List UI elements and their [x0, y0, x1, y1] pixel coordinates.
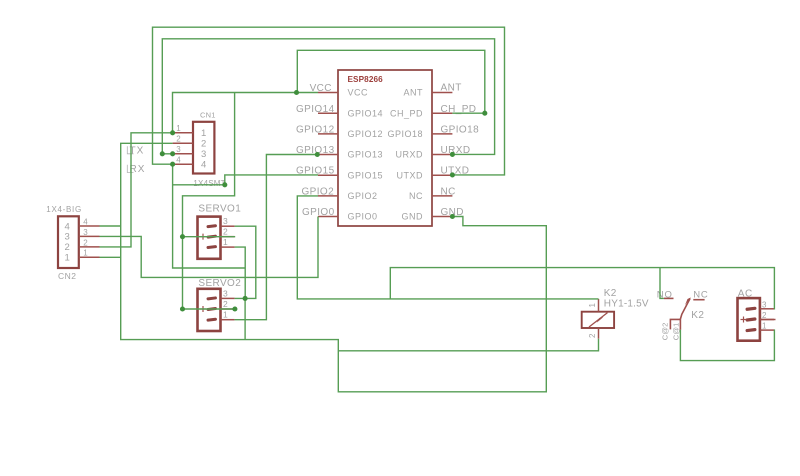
svg-text:K2: K2 [691, 310, 704, 321]
svg-text:NC: NC [409, 191, 423, 201]
junction at SERVO1 pin 2 wire [180, 234, 185, 239]
switch K2 (relay contacts NO/NC/common) [657, 289, 709, 340]
junction at CN1 pin 3 [170, 151, 175, 156]
svg-text:C@1: C@1 [671, 322, 680, 340]
wire GND branch to relay K2 pin 2 [338, 339, 598, 351]
connector CN2 (1X4-BIG, pins 4-1) [46, 205, 99, 281]
junction at SERVO2 pin 3 [243, 296, 248, 301]
wire branch to AC pin 3 [390, 268, 774, 309]
junction below 1X4SMT label [222, 182, 227, 187]
wire VCC: ESP VCC pin to CN1 pin 1 [173, 93, 319, 133]
wire CN1 pin 4 rail to SERVO1 pin 1 [173, 164, 246, 268]
svg-text:NC: NC [693, 289, 708, 300]
junction at ESP VCC pin [294, 90, 299, 95]
node RX (net flag) [127, 164, 145, 175]
junction at SERVO2 pin 2 pin end [232, 306, 237, 311]
svg-text:1X4SMT: 1X4SMT [193, 179, 225, 188]
svg-text:2: 2 [83, 238, 88, 247]
svg-text:GPIO14: GPIO14 [296, 104, 335, 115]
svg-text:1X4-BIG: 1X4-BIG [46, 205, 82, 214]
wire branch to switch NO contact [660, 268, 664, 299]
node GPIO13 (net label, left of ESP8266) [296, 145, 335, 156]
node TX (net flag) [127, 146, 144, 157]
wire CH_PD to VCC (third top loop) [297, 50, 485, 113]
svg-text:1: 1 [201, 128, 206, 139]
wire GND branch to CN2 pin 4 [100, 225, 121, 227]
svg-text:3: 3 [83, 228, 88, 237]
svg-text:1: 1 [588, 303, 597, 308]
svg-text:UTXD: UTXD [397, 170, 424, 180]
svg-text:VCC: VCC [348, 88, 369, 98]
connector SERVO2 (3-pin) [198, 278, 242, 331]
svg-text:NC: NC [441, 186, 456, 197]
svg-text:GPIO12: GPIO12 [296, 125, 335, 136]
svg-text:4: 4 [201, 160, 206, 171]
svg-text:1: 1 [65, 253, 70, 264]
svg-text:4: 4 [176, 156, 181, 165]
svg-text:1: 1 [83, 249, 88, 258]
wire switch common to AC pin 1 [680, 330, 774, 361]
svg-text:ANT: ANT [404, 88, 424, 98]
wire SERVO1 pin 1 down to SERVO2 pin 3 junction [235, 247, 246, 298]
wire GPIO13 to SERVO2 pin 1 [235, 155, 318, 320]
connector AC (3-pin) [738, 289, 776, 341]
node GPIO2 (net label, left of ESP8266) [302, 187, 335, 198]
svg-text:HY1-1.5V: HY1-1.5V [604, 299, 649, 310]
wire VCC rail down to servo center pins [183, 93, 235, 310]
svg-text:RX: RX [130, 164, 146, 175]
relay K2 coil (HY1-1.5V) [582, 288, 649, 339]
junction at CN1 pin 1 [170, 130, 175, 135]
svg-text:4: 4 [65, 221, 70, 232]
svg-text:TX: TX [130, 146, 145, 157]
svg-text:GPIO2: GPIO2 [348, 191, 378, 201]
svg-text:1: 1 [223, 310, 228, 320]
wire GPIO0 to CN2 pin 3 [100, 217, 319, 278]
wire SERVO2 pin 2 branch [183, 308, 235, 310]
node GND (net label, right of ESP8266) [441, 207, 464, 218]
svg-text:CH_PD: CH_PD [390, 108, 423, 118]
svg-text:GPIO12: GPIO12 [348, 129, 384, 139]
svg-text:3: 3 [223, 288, 228, 298]
IC U1 ESP8266 module (box, pins, pin names) [318, 70, 452, 226]
svg-text:4: 4 [83, 217, 88, 226]
wire VCC: CN1 pin 1 to CN2 pin 2 [100, 133, 173, 247]
junction at CN1 pin 4 [170, 162, 175, 167]
svg-text:GPIO18: GPIO18 [387, 129, 423, 139]
svg-text:ESP8266: ESP8266 [348, 75, 384, 84]
svg-text:2: 2 [588, 333, 597, 338]
svg-text:CN2: CN2 [58, 271, 77, 281]
wire GND: CN1 pin 2 down and around to ESP GND [121, 143, 547, 391]
svg-text:SERVO2: SERVO2 [198, 278, 241, 289]
junction at ESP GND pin [450, 214, 455, 219]
wire GND branch to CN2 pin 1 [100, 256, 121, 258]
wire URXD to CN1 pin 3 (second top loop) [162, 39, 494, 155]
svg-text:3: 3 [65, 232, 70, 243]
node NC (net label, right of ESP8266) [441, 186, 456, 197]
svg-text:GPIO13: GPIO13 [348, 150, 384, 160]
svg-text:SERVO1: SERVO1 [198, 204, 241, 215]
svg-text:3: 3 [176, 145, 181, 154]
svg-text:1: 1 [176, 124, 181, 133]
wire SERVO1 pin 3 to SERVO2 pin 3 junction [235, 226, 256, 298]
node GPIO12 (net label, left of ESP8266) [296, 125, 335, 136]
node GPIO18 (net label, right of ESP8266) [441, 125, 480, 136]
svg-text:CN1: CN1 [200, 110, 216, 119]
svg-text:2: 2 [176, 135, 181, 144]
junction left of CN1 pin 3 [160, 151, 165, 156]
svg-text:2: 2 [223, 299, 228, 309]
svg-text:ANT: ANT [441, 82, 462, 93]
svg-text:2: 2 [223, 227, 228, 237]
junction at CH_PD corner [482, 111, 487, 116]
svg-text:GPIO14: GPIO14 [348, 108, 384, 118]
svg-text:2: 2 [762, 311, 767, 320]
svg-text:3: 3 [762, 300, 767, 309]
node CH_PD (net label, right of ESP8266) [441, 104, 477, 115]
node GPIO14 (net label, left of ESP8266) [296, 104, 335, 115]
connector SERVO1 (3-pin) [198, 204, 242, 259]
wire GPIO2 to relay K2 pin 1 [297, 196, 598, 299]
svg-text:2: 2 [65, 242, 70, 253]
svg-text:1: 1 [223, 237, 228, 247]
svg-text:3: 3 [223, 216, 228, 226]
node UTXD (net label, right of ESP8266) [441, 166, 470, 177]
node VCC (net label, left of ESP8266) [310, 83, 332, 94]
svg-text:K2: K2 [604, 288, 617, 299]
wire UTXD to CN1 pin 4 (outer top loop) [153, 27, 505, 175]
svg-text:1: 1 [762, 322, 767, 331]
svg-text:AC: AC [738, 289, 753, 300]
wire GND branch from SERVO2 pin 3 junction [244, 298, 246, 339]
svg-text:GND: GND [402, 212, 424, 222]
svg-text:3: 3 [201, 149, 206, 160]
wire SERVO1 pin 2 branch [183, 236, 236, 238]
junction at ESP URXD pin [450, 152, 455, 157]
node ANT (net label, right of ESP8266) [441, 82, 462, 93]
svg-text:GPIO0: GPIO0 [348, 212, 378, 222]
node GPIO0 (net label, left of ESP8266) [302, 207, 335, 218]
svg-text:GPIO15: GPIO15 [348, 170, 384, 180]
junction at ESP GPIO13 pin [315, 152, 320, 157]
junction at SERVO2 pin 2 wire left [180, 306, 185, 311]
svg-text:NO: NO [657, 289, 673, 300]
junction at ESP UTXD pin [450, 172, 455, 177]
svg-text:2: 2 [201, 139, 206, 150]
svg-text:C@2: C@2 [661, 322, 670, 340]
wire GPIO15 to 1X4SMT junction [173, 175, 318, 185]
connector CN1 (1X4SMT, pins 1-4) [173, 110, 226, 188]
svg-text:GPIO18: GPIO18 [441, 125, 480, 136]
node URXD (net label, right of ESP8266) [441, 145, 471, 156]
svg-text:URXD: URXD [395, 150, 423, 160]
node GPIO15 (net label, left of ESP8266) [296, 166, 335, 177]
